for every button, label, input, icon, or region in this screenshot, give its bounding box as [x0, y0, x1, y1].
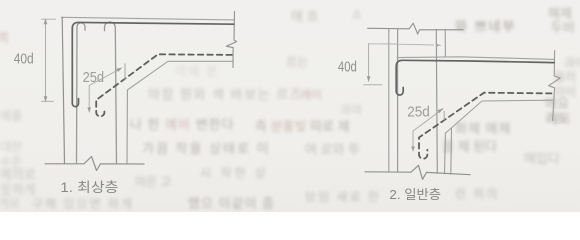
beam top bar (dark) bent down into column with 180 hook	[72, 22, 234, 106]
column right face lower	[444, 133, 447, 174]
dimension 40d right	[368, 44, 370, 81]
svg-text:2. 일반층: 2. 일반층	[389, 187, 441, 202]
hidden beam bottom bar (dashed) with hook right	[419, 93, 552, 159]
column cut line above with break	[368, 23, 463, 34]
svg-text:25d: 25d	[407, 104, 430, 121]
column left face	[388, 29, 390, 172]
short face line under haunch	[450, 129, 453, 175]
column bar 2 with top hook	[105, 22, 117, 164]
hidden beam bottom bar (dashed) with hook	[96, 54, 232, 116]
25d end tick right	[443, 111, 445, 120]
ground break line	[45, 157, 144, 171]
beam end break line right	[549, 51, 561, 121]
beam top bar (dark) bent down into column with 180 hook	[396, 60, 554, 95]
column bar 1 with top hook	[77, 23, 86, 164]
beam soffit and haunch	[127, 61, 232, 90]
svg-text:25d: 25d	[83, 69, 105, 86]
25d end tick left	[124, 64, 126, 80]
column inner face below joint	[126, 90, 128, 164]
dimension 25d right : bent leader with arrows	[413, 109, 443, 150]
column bar 2	[436, 29, 437, 173]
dimension 40d left : line with arrows and ticks	[45, 20, 47, 102]
column bar 1	[397, 29, 399, 172]
beam soffit right with haunch	[445, 100, 552, 133]
ghost bleed-through text layer	[291, 9, 319, 24]
svg-text:40d: 40d	[338, 58, 357, 75]
column outer face	[62, 17, 64, 163]
beam top edge (concrete outline)	[62, 17, 234, 20]
svg-text:1. 최상층: 1. 최상층	[60, 180, 118, 195]
dimension 25d left : bent leader with arrows	[89, 69, 121, 111]
svg-text:40d: 40d	[14, 51, 34, 68]
column right face upper	[444, 29, 446, 56]
beam end break line	[226, 11, 236, 67]
ground break line right	[365, 165, 470, 179]
beam top edge right	[397, 57, 554, 60]
